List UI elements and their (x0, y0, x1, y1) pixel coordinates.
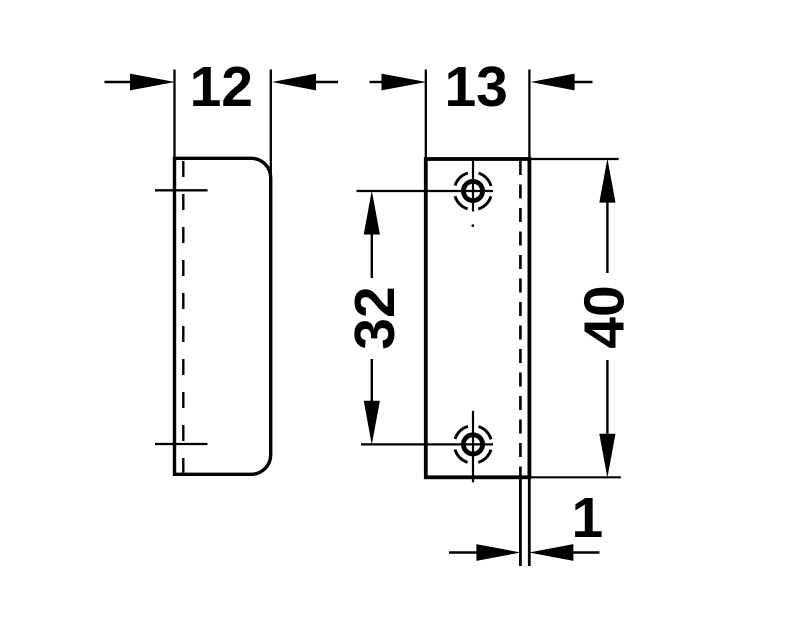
dimension 32: lower line segment (371, 359, 373, 402)
dimension 12: left tail line (105, 81, 132, 83)
front view: top edge extension (40 dim) (531, 158, 619, 160)
hole bottom: horizontal centerline (361, 443, 493, 445)
dimension 12: left arrowhead (130, 74, 175, 91)
hole top: screw hole ring (463, 181, 482, 200)
front view: plate outline (426, 159, 530, 477)
hole bottom: dashed circle (454, 426, 491, 463)
left side view: lower centerline tick (155, 443, 208, 445)
hole bottom: screw hole ring (463, 435, 482, 454)
svg-text:32: 32 (343, 286, 407, 349)
dimension 40: lower line segment (606, 360, 608, 435)
dimension 32: up arrowhead (364, 191, 380, 235)
strip left edge line below plate (519, 477, 522, 566)
dimension 13: right extension line (528, 70, 530, 161)
dimension 1: left arrowhead (476, 544, 520, 561)
dimension 40: down arrowhead (599, 434, 615, 478)
front view: bend dashed line (519, 161, 522, 476)
left side view: upper centerline tick (155, 189, 208, 191)
dimension 13: right arrowhead (531, 74, 575, 91)
svg-text:12: 12 (190, 55, 253, 119)
svg-text:1: 1 (571, 486, 603, 550)
svg-text:40: 40 (573, 285, 637, 348)
dimension 13: left extension line (425, 70, 427, 161)
hole top: small dot mark (472, 224, 475, 227)
dimension 13: left arrowhead (382, 74, 427, 91)
svg-text:13: 13 (444, 55, 507, 119)
hole top: dashed circle (454, 172, 491, 209)
dimension 12: right tail line (314, 81, 338, 83)
dimension 13: left tail line (370, 81, 386, 83)
dimension 1: right arrowhead (529, 544, 573, 561)
dimension 12: right extension line (270, 70, 272, 179)
dimension 1: right tail line (573, 551, 600, 553)
front view: bottom edge extension (40 dim) (531, 476, 621, 478)
dimension 13: right tail line (572, 81, 593, 83)
dimension 12: left extension line (173, 70, 175, 161)
dimension 32: upper line segment (371, 233, 373, 278)
dimension 1: left tail line (449, 551, 477, 553)
dimension 40: up arrowhead (599, 159, 615, 203)
strip right edge line below plate (528, 477, 531, 566)
left side view: hidden edge dashed line (182, 161, 184, 473)
dimension 40: upper line segment (606, 202, 608, 273)
dimension 12: right arrowhead (272, 74, 316, 91)
hole bottom: vertical centerline (472, 411, 474, 482)
left side view: outline (175, 158, 271, 474)
dimension 32: down arrowhead (364, 401, 380, 445)
hole top: horizontal centerline (357, 190, 494, 192)
hole top: vertical centerline (472, 160, 474, 212)
